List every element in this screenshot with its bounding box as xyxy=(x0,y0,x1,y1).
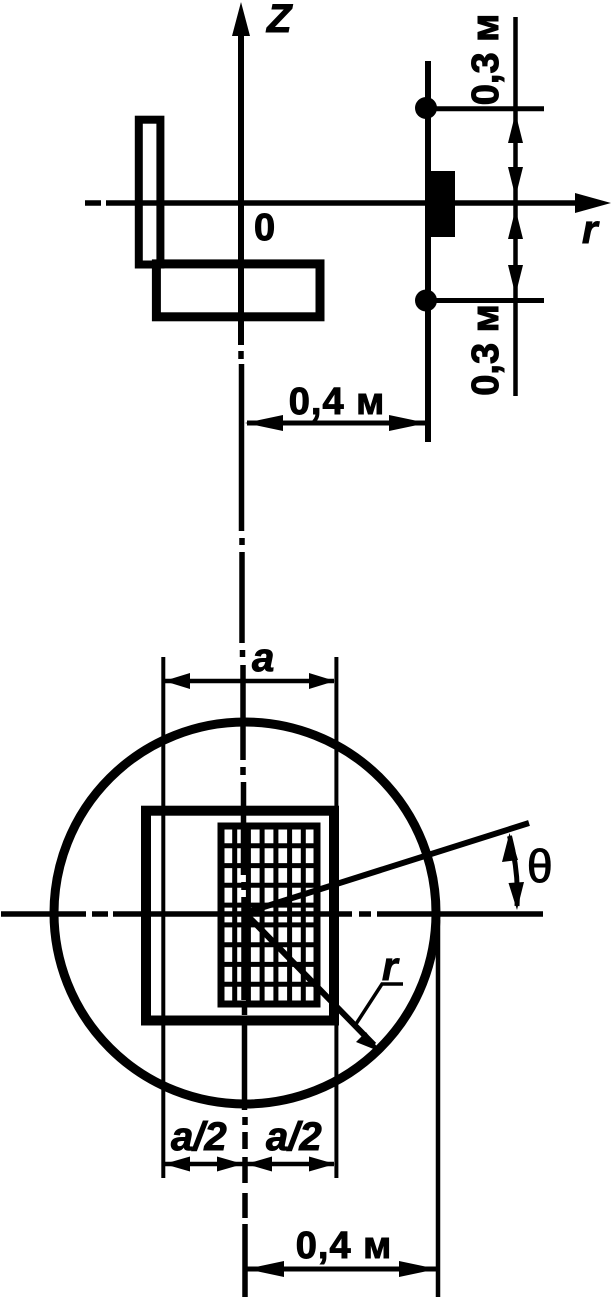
0,4 m bottom dimension line xyxy=(247,1267,436,1272)
svg-text:r: r xyxy=(382,945,400,989)
theta angled line xyxy=(245,823,529,913)
left extension line a xyxy=(161,657,165,1178)
svg-text:r: r xyxy=(582,208,600,252)
loudspeaker magnet: narrow vertical rectangle xyxy=(139,120,161,265)
svg-text:0,3 м: 0,3 м xyxy=(465,304,507,396)
a/2 dimension line xyxy=(165,1162,334,1167)
left arrow of 0,4 m top xyxy=(245,415,283,431)
right extension line 0,4 m bottom xyxy=(436,920,441,1297)
svg-text:0,3 м: 0,3 м xyxy=(465,14,507,106)
arrow down to axis (upper pair) xyxy=(508,167,523,197)
diffuser grid outer rect xyxy=(221,826,317,1004)
svg-text:0,4 м: 0,4 м xyxy=(296,1225,393,1267)
svg-text:a/2: a/2 xyxy=(266,1115,322,1159)
a/2 left-left arrow xyxy=(164,1157,190,1172)
a dimension line xyxy=(165,679,334,684)
bottom 0,4 right arrow xyxy=(399,1261,437,1277)
0,3 m dimension line (vertical) xyxy=(513,17,518,396)
a/2 right-left arrow xyxy=(246,1157,272,1172)
arrow up to top tick xyxy=(508,113,523,143)
r axis: leading short dash xyxy=(85,200,101,206)
Z axis solid upper segment xyxy=(238,30,244,345)
loudspeaker frame: wide bottom rectangle xyxy=(156,264,320,317)
right arrow of 0,4 m top xyxy=(389,415,427,431)
grid vertical lines xyxy=(235,826,304,1004)
arrow up to axis (lower pair) xyxy=(508,209,523,239)
Z axis arrowhead xyxy=(232,2,250,36)
horizontal centerline of circle (dash-dot) xyxy=(1,911,543,917)
r axis main line xyxy=(106,200,578,206)
microphone point dot (top) xyxy=(415,97,437,119)
svg-text:0,4 м: 0,4 м xyxy=(289,381,386,423)
a dim left arrow xyxy=(164,673,190,689)
microphone point dot (bottom) xyxy=(415,290,437,312)
microphone traverse vertical line xyxy=(425,61,431,442)
a dim right arrow xyxy=(309,673,335,689)
a/2 right-right arrow xyxy=(309,1157,335,1172)
svg-text:θ: θ xyxy=(527,840,553,892)
a/2 left-right arrow xyxy=(217,1157,243,1172)
microphone body black rectangle xyxy=(426,171,455,237)
arrow down to bottom tick xyxy=(508,265,523,295)
right extension line a xyxy=(334,657,338,1178)
svg-text:Z: Z xyxy=(266,0,293,41)
grid horizontal lines xyxy=(221,846,317,984)
rotating table circle xyxy=(54,722,436,1104)
svg-text:a: a xyxy=(252,636,274,680)
svg-text:a/2: a/2 xyxy=(171,1115,227,1159)
tick line at bottom dot xyxy=(426,298,544,303)
theta angle arc with arrows xyxy=(510,836,518,906)
svg-text:0: 0 xyxy=(254,207,275,249)
r leader line xyxy=(356,984,403,1024)
r axis arrowhead xyxy=(575,193,611,213)
bottom 0,4 left arrow xyxy=(246,1261,284,1277)
tick line at top dot xyxy=(426,106,544,111)
radius line r with arrow to circle edge xyxy=(245,913,374,1045)
loudspeaker front-view rectangle xyxy=(146,811,334,1021)
0,4 m top dimension line xyxy=(247,421,426,426)
Z axis dash-dot continuation down through circle center xyxy=(241,351,245,1297)
